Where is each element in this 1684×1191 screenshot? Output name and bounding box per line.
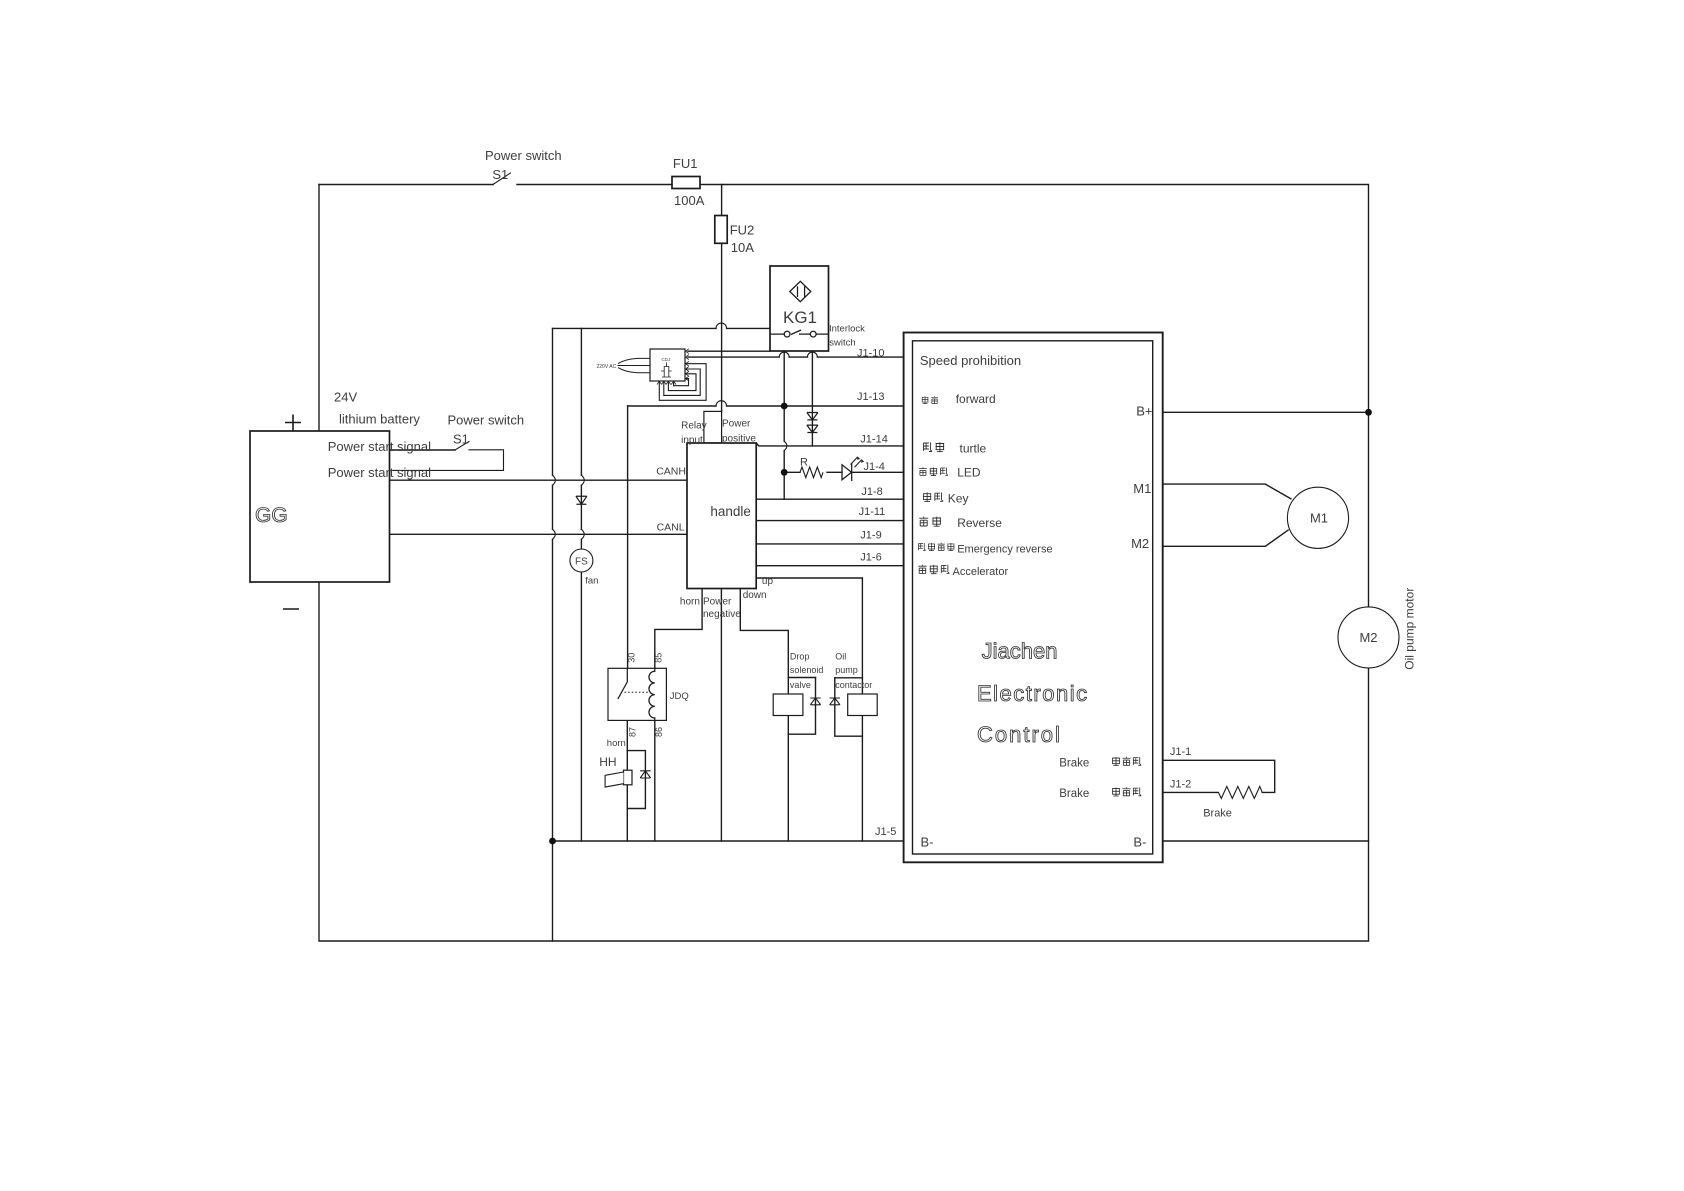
svg-text:J1-2: J1-2: [1170, 778, 1191, 790]
svg-text:FU2: FU2: [730, 223, 755, 238]
svg-text:Drop: Drop: [790, 652, 810, 662]
svg-text:87: 87: [628, 727, 638, 737]
svg-text:fan: fan: [585, 575, 598, 586]
svg-text:FU1: FU1: [673, 156, 698, 171]
svg-text:J1-13: J1-13: [857, 391, 885, 403]
svg-text:input: input: [681, 435, 703, 446]
svg-text:85: 85: [654, 653, 664, 663]
svg-text:100A: 100A: [674, 193, 705, 208]
svg-text:Power switch: Power switch: [485, 148, 562, 163]
svg-text:J1-8: J1-8: [861, 486, 882, 498]
svg-text:J1-11: J1-11: [859, 506, 886, 518]
svg-text:B+: B+: [1136, 404, 1152, 419]
svg-text:handle: handle: [710, 504, 751, 519]
svg-text:B-: B-: [921, 835, 934, 850]
svg-text:contactor: contactor: [835, 680, 872, 690]
svg-text:CANH: CANH: [656, 466, 686, 478]
svg-text:Oil: Oil: [835, 652, 846, 662]
svg-text:GG: GG: [255, 504, 288, 527]
svg-text:KG1: KG1: [783, 308, 817, 327]
svg-text:10A: 10A: [731, 240, 754, 255]
svg-text:JDQ: JDQ: [670, 691, 689, 702]
svg-text:Power: Power: [703, 596, 732, 607]
svg-text:J1-10: J1-10: [857, 347, 885, 359]
svg-text:Brake: Brake: [1059, 788, 1089, 800]
svg-text:J1-5: J1-5: [875, 826, 896, 838]
svg-text:Emergency reverse: Emergency reverse: [957, 543, 1052, 555]
svg-text:Brake: Brake: [1203, 808, 1232, 820]
svg-text:CDJ: CDJ: [662, 357, 671, 362]
svg-text:S1: S1: [453, 432, 469, 447]
svg-text:Oil pump motor: Oil pump motor: [1403, 588, 1417, 670]
svg-text:J1-1: J1-1: [1170, 746, 1191, 758]
svg-text:switch: switch: [829, 338, 855, 349]
svg-text:J1-4: J1-4: [864, 461, 885, 473]
svg-text:pump: pump: [835, 665, 858, 675]
svg-text:Accelerator: Accelerator: [953, 566, 1009, 578]
svg-text:valve: valve: [790, 680, 811, 690]
svg-text:up: up: [762, 576, 774, 587]
svg-text:Interlock: Interlock: [829, 324, 865, 335]
svg-text:Power start signal: Power start signal: [328, 465, 431, 480]
svg-text:86: 86: [654, 727, 664, 737]
svg-text:J1-14: J1-14: [860, 434, 888, 446]
svg-text:R: R: [800, 456, 808, 468]
svg-text:S1: S1: [492, 167, 508, 182]
svg-text:solenoid: solenoid: [790, 665, 824, 675]
svg-text:positive: positive: [722, 433, 756, 444]
svg-text:M1: M1: [1133, 481, 1151, 496]
svg-text:forward: forward: [956, 392, 996, 406]
svg-text:M2: M2: [1131, 536, 1149, 551]
svg-text:FS: FS: [575, 557, 588, 568]
svg-text:Relay: Relay: [681, 421, 707, 432]
svg-text:Brake: Brake: [1059, 758, 1089, 770]
svg-text:Power start signal: Power start signal: [328, 439, 431, 454]
svg-text:lithium battery: lithium battery: [339, 412, 420, 427]
svg-text:B-: B-: [1133, 835, 1146, 850]
svg-text:24V: 24V: [334, 390, 357, 405]
svg-text:J1-9: J1-9: [860, 530, 881, 542]
svg-text:horn: horn: [607, 738, 626, 749]
svg-text:30: 30: [627, 653, 637, 663]
svg-text:Power: Power: [722, 418, 751, 429]
svg-text:horn: horn: [680, 596, 700, 607]
svg-text:Jiachen: Jiachen: [982, 638, 1058, 663]
svg-text:down: down: [743, 590, 767, 601]
svg-text:M2: M2: [1359, 630, 1377, 645]
svg-text:negative: negative: [703, 609, 741, 620]
svg-text:M1: M1: [1310, 511, 1328, 526]
svg-text:Key: Key: [948, 491, 969, 505]
svg-text:Power switch: Power switch: [448, 413, 525, 428]
svg-text:turtle: turtle: [960, 442, 987, 456]
svg-text:Control: Control: [977, 722, 1062, 747]
svg-text:220V AC: 220V AC: [597, 364, 617, 370]
svg-text:Reverse: Reverse: [957, 516, 1002, 530]
svg-text:HH: HH: [599, 755, 616, 769]
svg-text:Electronic: Electronic: [977, 681, 1089, 706]
svg-text:CANL: CANL: [657, 522, 685, 534]
svg-text:Speed prohibition: Speed prohibition: [920, 353, 1021, 368]
svg-text:J1-6: J1-6: [860, 551, 881, 563]
svg-text:LED: LED: [957, 466, 981, 480]
